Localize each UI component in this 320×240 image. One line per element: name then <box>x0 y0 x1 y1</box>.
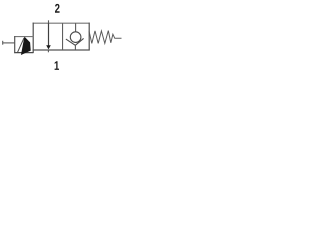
port 2 stub (top) <box>48 20 50 23</box>
check valve stem (bottom) <box>74 45 76 50</box>
check valve stem (top) <box>75 23 77 32</box>
valve body envelope: left edge (shared with pilot box right edge) <box>32 23 34 53</box>
label 2 <box>55 4 60 13</box>
pilot actuator box: top edge <box>14 36 33 38</box>
pilot port tick <box>2 41 4 45</box>
pilot triangle (filled, hydraulic pilot) <box>22 38 31 55</box>
valve body envelope: bottom edge <box>33 49 90 51</box>
position divider line <box>62 23 64 50</box>
background <box>0 0 127 79</box>
label 1 <box>55 61 59 70</box>
port 1 stub (bottom) <box>47 50 49 52</box>
pilot triangle outline edge <box>17 38 24 53</box>
valve body envelope: right edge <box>88 23 90 51</box>
valve body envelope: top edge <box>33 22 90 24</box>
flow path arrow line (left position) <box>48 23 50 46</box>
return spring (right) <box>89 31 122 44</box>
check valve ball (circle) <box>70 32 81 43</box>
pilot line <box>3 42 15 44</box>
pilot actuator box: left edge <box>14 36 16 53</box>
pilot actuator box: bottom edge <box>14 52 33 54</box>
check valve seat (V) right arm <box>75 38 83 45</box>
flow path arrowhead <box>46 45 51 49</box>
check valve seat (V) left arm <box>66 39 75 45</box>
